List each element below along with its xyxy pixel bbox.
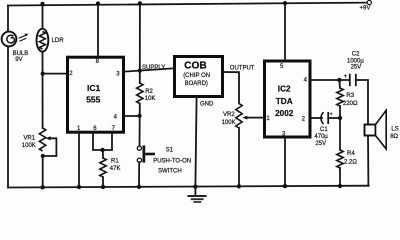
COB module box <box>175 57 223 97</box>
wire IC1 pin 4 <box>124 115 140 117</box>
svg-text:C2: C2 <box>352 52 360 58</box>
junction dot pin2 tap <box>41 72 45 76</box>
wire left rail lower (bulb to bottom rail) <box>7 46 9 187</box>
svg-text:VR2: VR2 <box>223 112 235 118</box>
wire C1 to feedback node <box>328 117 340 119</box>
photoresistor LDR <box>37 29 65 52</box>
resistor R3 220 ohm <box>337 88 358 107</box>
wire IC2 pin 4 output <box>311 79 350 81</box>
svg-text:220Ω: 220Ω <box>343 101 358 107</box>
svg-text:10K: 10K <box>145 96 156 102</box>
junction dot top rail at LDR <box>40 2 44 6</box>
wire R4 to bottom rail <box>339 168 341 186</box>
svg-text:47K: 47K <box>110 166 121 172</box>
node +9V terminal circle <box>367 0 371 4</box>
wire R2 to S1 <box>139 104 141 147</box>
svg-text:+: + <box>344 74 348 80</box>
svg-text:TDA: TDA <box>276 97 293 106</box>
svg-text:COB: COB <box>184 61 207 72</box>
wire IC2 pin 3 to bottom rail <box>284 137 286 187</box>
potentiometer VR2 100K volume <box>222 104 243 129</box>
wire VR2 to bottom rail <box>238 128 240 186</box>
wire pins 6 and 7 strap <box>93 133 112 151</box>
svg-text:BOARD): BOARD) <box>185 81 208 87</box>
wire IC1 pin 3 supply line to COB <box>124 68 174 71</box>
wire IC1 pin 2 <box>43 73 66 75</box>
wire LDR branch top <box>42 4 44 29</box>
svg-text:25V: 25V <box>351 65 362 71</box>
junction dot bottom rail VR2 <box>237 184 241 188</box>
switch S1 push-to-on <box>137 145 191 174</box>
wire IC2 pin 2 <box>311 117 323 119</box>
svg-text:GND: GND <box>200 102 214 108</box>
svg-text:8Ω: 8Ω <box>390 134 398 140</box>
lamp BULB 9V <box>2 32 29 64</box>
svg-text:IC2: IC2 <box>278 85 291 94</box>
wire R2 branch from top rail <box>139 3 141 83</box>
capacitor C1 470u 25V <box>314 112 333 147</box>
speaker LS 8 ohm <box>365 110 399 149</box>
wire COB GND to bottom rail <box>195 97 196 187</box>
wire C2 to speaker <box>356 80 368 124</box>
resistor R4 2.2 ohm <box>337 150 358 168</box>
junction dot bottom rail S1 <box>137 185 141 189</box>
wire left rail upper (to bulb) <box>7 6 9 32</box>
svg-text:(CHIP ON: (CHIP ON <box>183 73 210 79</box>
svg-text:R3: R3 <box>346 93 354 99</box>
wire VR1 to bottom rail <box>42 156 44 187</box>
svg-text:100K: 100K <box>22 143 36 149</box>
junction dot feedback node <box>338 116 342 120</box>
junction dot bottom rail R4 <box>338 184 342 188</box>
ground symbol <box>187 187 206 202</box>
amplifier IC2 TDA2002 box <box>265 61 311 137</box>
junction dot bottom rail gnd <box>193 185 197 189</box>
junction dot bottom rail pin1 <box>77 185 81 189</box>
svg-text:C1: C1 <box>320 127 328 133</box>
svg-text:R1: R1 <box>111 158 119 164</box>
junction dot output node <box>337 78 341 82</box>
svg-text:100K: 100K <box>222 120 236 126</box>
wire IC2 pin 5 to top rail <box>284 3 286 61</box>
svg-text:LS: LS <box>391 127 398 133</box>
wire feedback node to R4 <box>339 118 341 150</box>
svg-text:SWITCH: SWITCH <box>158 168 182 174</box>
svg-text:BULB: BULB <box>13 51 29 57</box>
junction dot IC1 pin4 tap <box>138 114 142 118</box>
svg-text:S1: S1 <box>166 148 174 154</box>
wire IC1 pin 8 to rail <box>97 3 99 57</box>
wire R3 to feedback node <box>339 106 341 118</box>
wire S1 to bottom rail <box>138 162 140 187</box>
wire VR2 wiper to IC2 pin 1 <box>242 116 263 120</box>
wire bottom ground rail <box>8 186 369 188</box>
wire COB output <box>223 72 240 104</box>
svg-text:2002: 2002 <box>275 109 294 118</box>
svg-text:2.2Ω: 2.2Ω <box>344 160 357 166</box>
junction dot pins 6-7 <box>100 148 104 152</box>
junction dot supply line R2 <box>138 69 142 73</box>
junction dot VR1 wiper join <box>41 154 45 158</box>
svg-text:R2: R2 <box>145 89 153 95</box>
junction dot bottom rail at VR1 <box>41 185 45 189</box>
svg-text:555: 555 <box>86 94 100 104</box>
svg-text:R4: R4 <box>347 151 355 157</box>
wire output node to R3 <box>338 80 341 88</box>
wire IC1 pin 1 to bottom rail <box>78 133 80 188</box>
svg-text:OUTPUT: OUTPUT <box>230 65 255 71</box>
svg-text:LDR: LDR <box>52 38 65 44</box>
op-amp IC1 555 timer box <box>68 57 124 132</box>
svg-text:1000µ: 1000µ <box>347 58 364 64</box>
svg-text:VR1: VR1 <box>23 135 35 141</box>
junction dot bottom rail IC2 <box>283 184 287 188</box>
wire R1 to bottom rail <box>102 177 104 187</box>
capacitor C2 1000u 25V <box>344 52 365 87</box>
junction dot top rail R2 <box>138 1 142 5</box>
svg-text:25V: 25V <box>315 141 326 147</box>
svg-text:9V: 9V <box>15 57 22 63</box>
wire speaker to bottom rail <box>367 136 369 186</box>
wire top supply rail <box>8 3 367 6</box>
wire LDR bottom to VR1 <box>42 52 44 128</box>
junction dot top rail pin8 <box>96 1 100 5</box>
potentiometer VR1 100K <box>22 128 57 156</box>
svg-text:+9V: +9V <box>360 6 371 12</box>
junction dot top rail IC2 <box>283 1 287 5</box>
resistor R2 10K <box>137 83 156 104</box>
resistor R1 47K <box>100 158 121 177</box>
svg-text:470µ: 470µ <box>314 134 328 140</box>
svg-text:SUPPLY: SUPPLY <box>142 65 165 71</box>
svg-text:PUSH-TO-ON: PUSH-TO-ON <box>153 158 191 164</box>
wire to R1 <box>102 150 104 158</box>
junction dot bottom rail R1 <box>101 185 105 189</box>
svg-text:IC1: IC1 <box>87 83 101 93</box>
